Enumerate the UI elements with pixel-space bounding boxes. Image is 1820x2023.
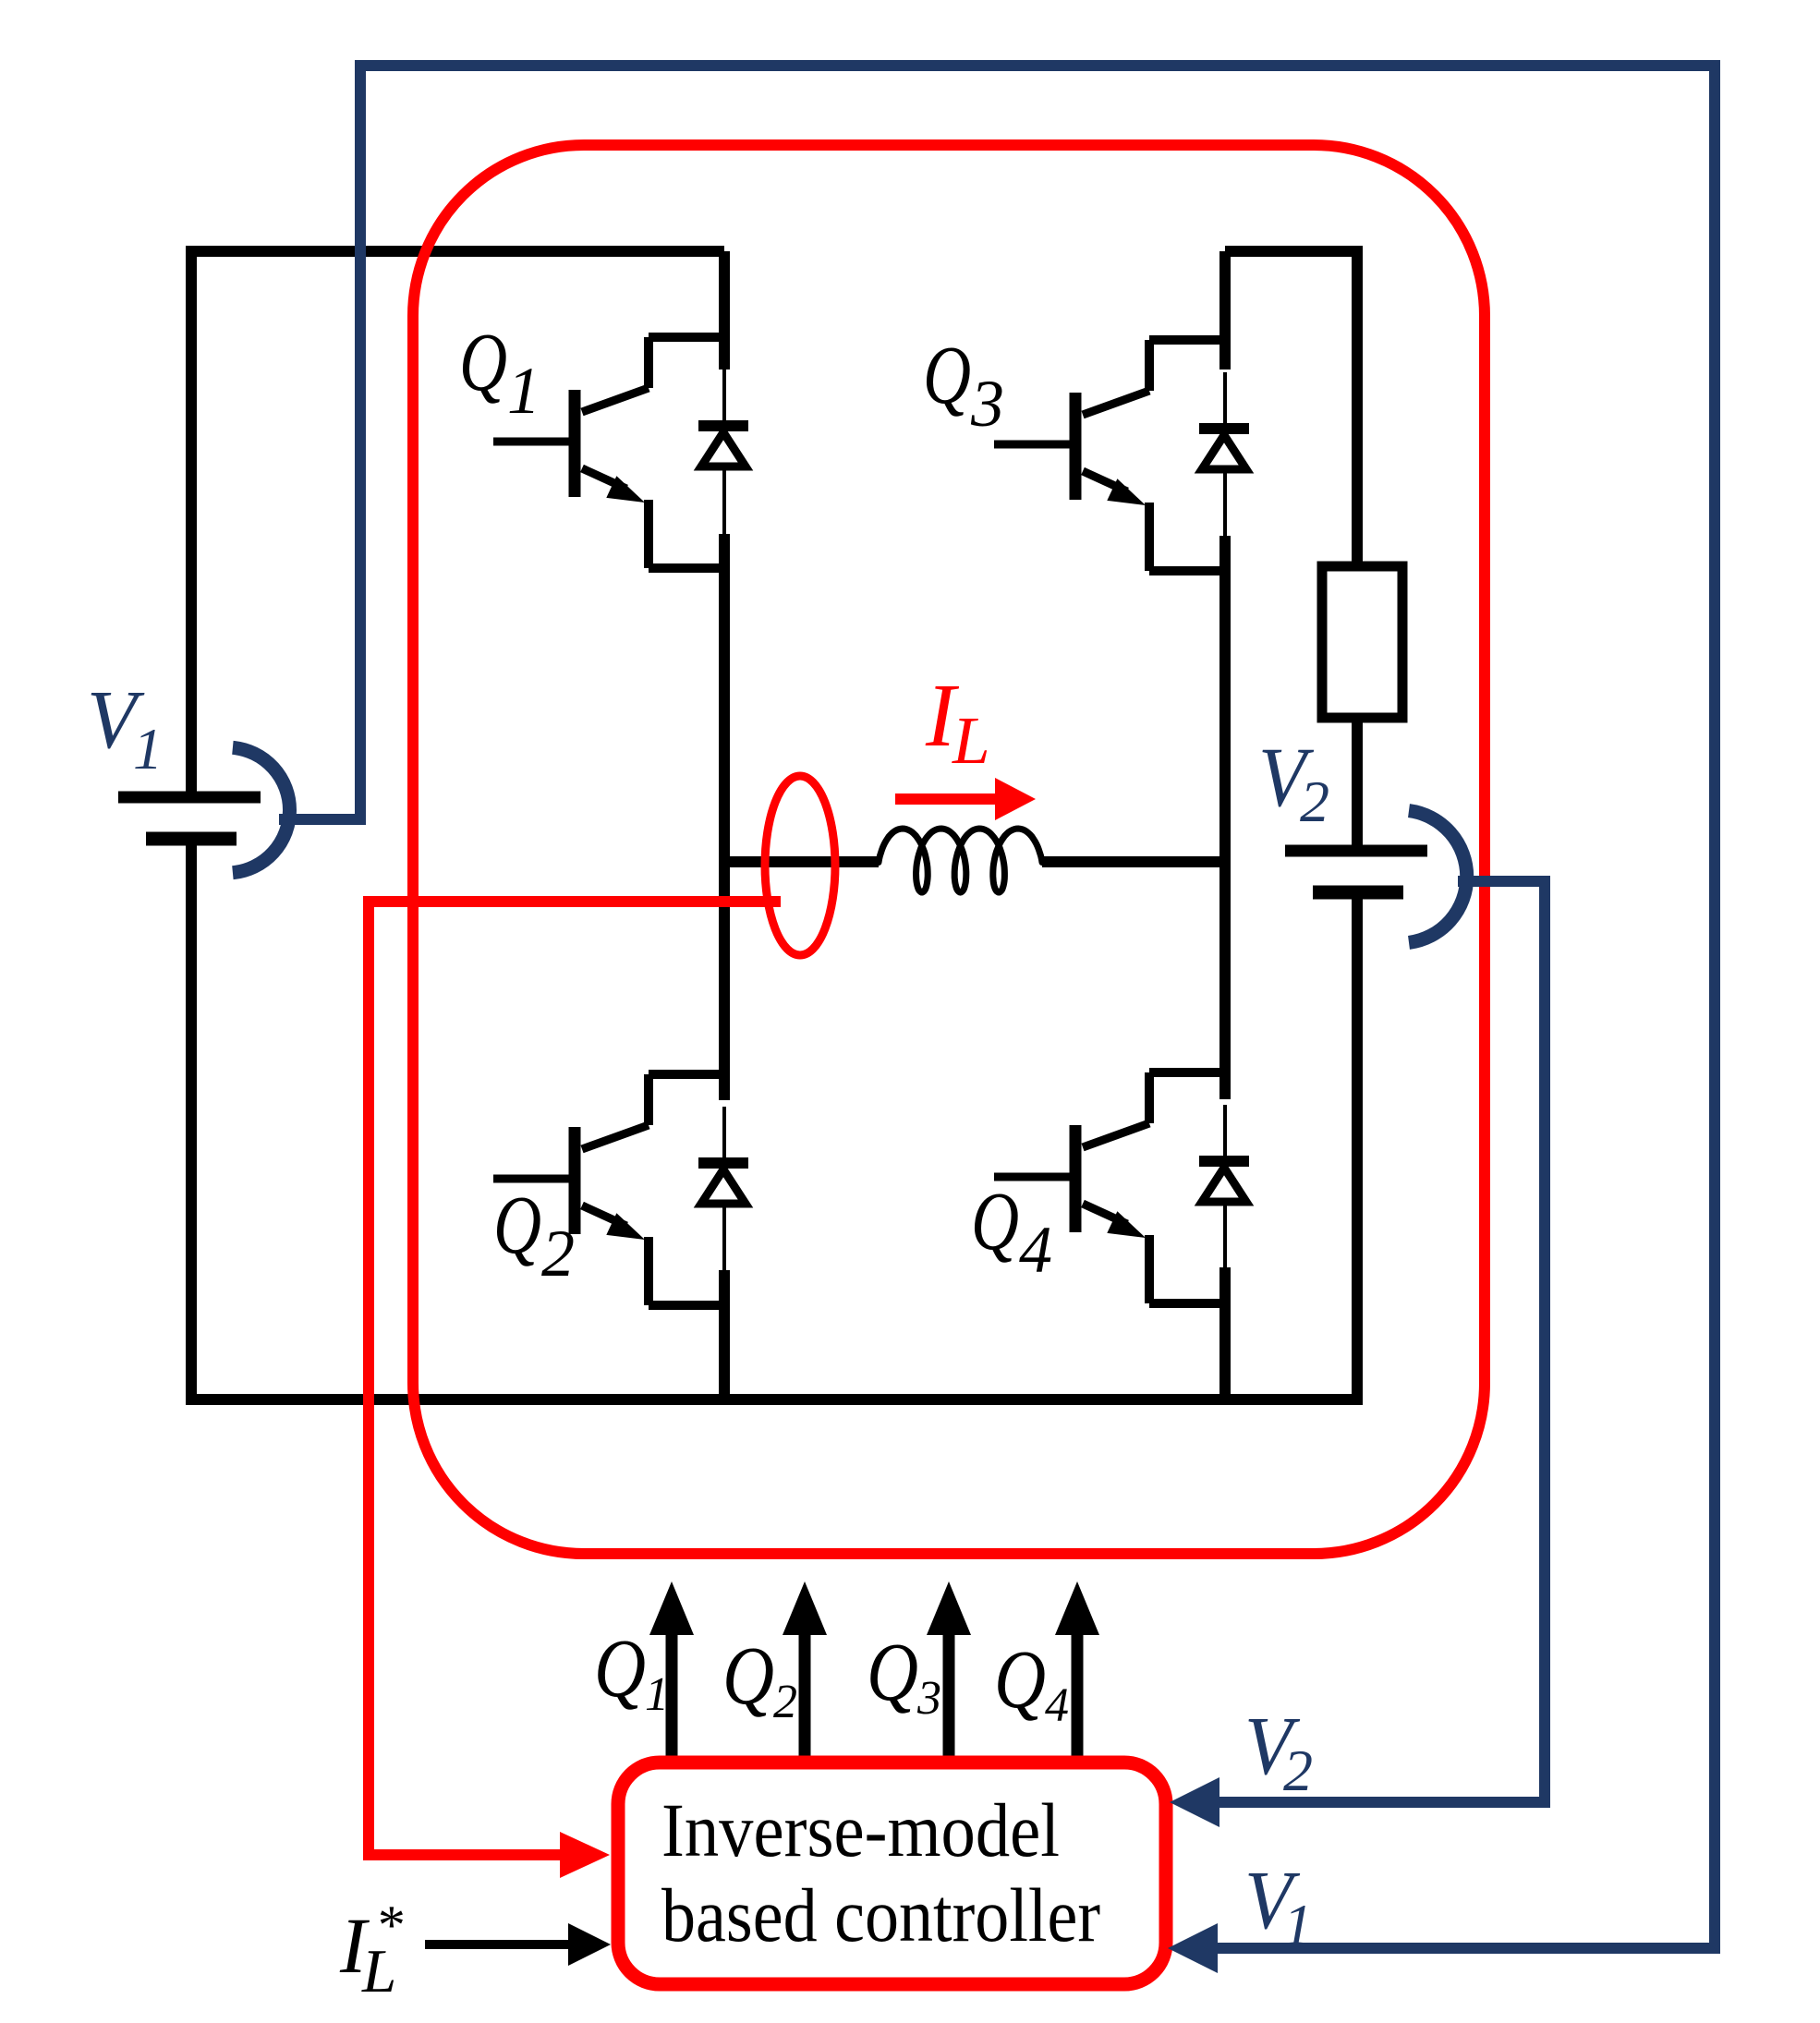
gate drive arrow Q2 [799,1635,811,1757]
controller box [618,1763,1166,1984]
svg-text:2: 2 [1283,1738,1313,1803]
wire: V1 positive lead up to top rail [191,251,724,797]
svg-text:2: 2 [773,1676,797,1728]
arrow: I_L direction annotation [895,793,998,805]
svg-text:L: L [952,703,990,778]
svg-text:1: 1 [133,716,163,781]
inductor L [879,829,1042,892]
voltage sensor arc V2 [1409,811,1467,943]
svg-text:2: 2 [1300,769,1329,834]
svg-text:Q: Q [722,1630,774,1722]
svg-text:1: 1 [507,354,540,428]
transistor Q4 [994,1072,1249,1303]
wire: top rail right segment [1225,251,1357,566]
svg-text:3: 3 [916,1672,941,1725]
current sensor (red ellipse) [765,776,835,955]
wire: I_L measurement feedback (red) [369,902,781,1855]
wire: V2 branch below resistor [1352,718,1363,1399]
svg-text:Q: Q [459,317,507,408]
svg-text:Q: Q [923,330,971,421]
svg-text:based controller: based controller [661,1872,1100,1957]
svg-text:4: 4 [1019,1213,1052,1287]
gate drive arrow Q4 [1072,1635,1084,1757]
transistor Q3 [994,340,1249,571]
transistor Q1 [493,337,748,568]
svg-text:L: L [361,1937,396,2005]
node: left bridge leg [719,251,730,1399]
voltage sensor arc V1 [233,747,290,872]
gate drive arrow Q3 [943,1635,955,1757]
transistor Q2 [493,1074,748,1305]
battery V2 [1285,851,1427,892]
battery V1 [118,797,261,839]
svg-text:1: 1 [1283,1892,1313,1957]
svg-text:2: 2 [541,1217,575,1290]
wire: midpoint rail right segment [1042,856,1225,867]
arrow: I_L* reference input [425,1940,571,1949]
svg-text:3: 3 [970,367,1004,441]
svg-text:Q: Q [994,1634,1046,1726]
svg-text:Inverse-model: Inverse-model [661,1787,1060,1872]
node: right bridge leg [1219,251,1231,1399]
svg-text:4: 4 [1045,1679,1069,1732]
wire: V1 measurement feedback (navy) [279,66,1715,1948]
wire: V1 negative lead and bottom rail [191,839,1363,1399]
svg-text:Q: Q [867,1627,918,1718]
svg-text:Q: Q [594,1623,646,1714]
gate drive arrow Q1 [666,1635,678,1757]
resistor (load) [1322,566,1402,718]
svg-text:1: 1 [645,1668,669,1721]
red converter outline box [413,145,1485,1554]
wire: V2 measurement feedback (navy) [1219,881,1545,1802]
wire: midpoint rail left segment [724,856,879,867]
svg-text:Q: Q [971,1176,1019,1267]
svg-text:Q: Q [493,1180,541,1271]
